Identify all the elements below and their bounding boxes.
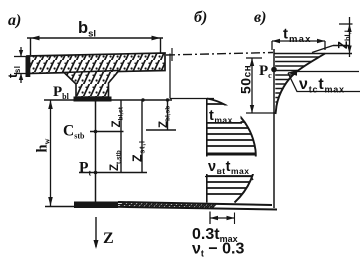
section axis	[95, 101, 97, 203]
svg-text:50сн: 50сн	[238, 65, 254, 94]
svg-text:Z: Z	[103, 230, 114, 247]
svg-text:Pc: Pc	[259, 63, 272, 80]
chain line A (Z_bl,st / Z_t,stb)	[120, 100, 122, 173]
bottom flange bar	[74, 202, 118, 209]
dimension 0.3 t_max	[209, 212, 211, 225]
bottom edge double line	[118, 202, 272, 205]
anchor vertical line	[273, 49, 275, 208]
svg-text:tmax: tmax	[283, 26, 312, 46]
point P_c	[271, 67, 277, 73]
svg-text:Cstb: Cstb	[63, 123, 85, 141]
bottom edge hatch ticks	[120, 203, 216, 209]
svg-text:tsl: tsl	[5, 65, 22, 78]
surface line right of anchor	[312, 46, 333, 53]
web taper and web	[64, 71, 119, 98]
svg-text:Zbl,l: Zbl,l	[335, 30, 352, 49]
dimension b_sl	[27, 38, 163, 55]
svg-text:νtctmax: νtctmax	[299, 76, 345, 95]
chain line B (Z_st,l)	[141, 100, 143, 173]
svg-text:bsl: bsl	[78, 19, 96, 40]
dimension t_max (v)	[272, 40, 325, 42]
diagram v curve	[276, 54, 326, 115]
svg-text:Zbl,sb: Zbl,sb	[158, 106, 172, 128]
diagram b hatch	[206, 104, 258, 194]
centerline dash-dot	[166, 53, 273, 56]
dimension 50cm	[251, 58, 253, 113]
diagram b left edge	[206, 99, 208, 203]
flag nu_tc t_max	[288, 72, 359, 74]
svg-text:hw: hw	[35, 138, 52, 152]
bearing plate under web	[74, 97, 112, 102]
projection line from centerline to diagram b	[169, 54, 171, 99]
label nu_bt t_max in diagram b	[206, 157, 259, 175]
diagram v top edge (solid axis part)	[274, 53, 352, 55]
svg-text:Zst,l: Zst,l	[131, 140, 147, 162]
label t_max in diagram b	[208, 106, 241, 123]
chain line C (Z_bl,sb)	[167, 100, 169, 130]
svg-text:Zbl,st: Zbl,st	[111, 106, 125, 127]
svg-text:Pbl: Pbl	[53, 84, 70, 101]
svg-text:Zt,stb: Zt,stb	[109, 150, 123, 171]
diagram b outline curve	[207, 99, 256, 203]
dimension Z_bl,l	[349, 17, 351, 57]
svg-text:б): б)	[194, 9, 207, 26]
axis Z arrow	[95, 217, 97, 247]
level line P_bl	[44, 99, 172, 101]
dimension t_sl	[14, 47, 27, 83]
svg-text:a): a)	[8, 12, 21, 29]
svg-text:Pt: Pt	[79, 160, 91, 178]
dimension h_w	[50, 100, 52, 206]
flange left edge cap	[26, 57, 31, 78]
flange (slab)	[27, 53, 165, 74]
centerline tick at flange edge	[171, 48, 173, 61]
svg-text:в): в)	[254, 9, 266, 26]
diagram v hatch	[274, 57, 330, 111]
svg-text:νt − 0.3: νt − 0.3	[192, 241, 244, 259]
